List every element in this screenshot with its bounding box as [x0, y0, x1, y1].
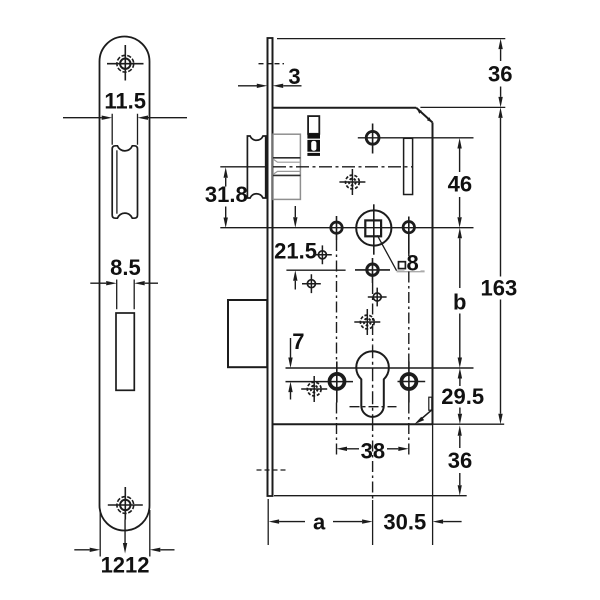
dimension 21.5 arrows (outside) [294, 206, 296, 290]
follower horizontal centreline through holes [220, 227, 473, 229]
follower square (8mm) [365, 220, 381, 236]
slider white slot [311, 141, 316, 151]
hole below follower [367, 264, 378, 275]
countersunk hole E (dashed circles) [346, 175, 360, 189]
slider black body [307, 140, 320, 152]
follower circle [356, 210, 391, 245]
hole left of cylinder [330, 374, 345, 389]
faceplate bottom extension [274, 495, 467, 497]
extension of case top edge to 163 [420, 106, 505, 108]
top screw centreline dashes [259, 63, 285, 65]
dimension b line and arrows [459, 238, 461, 357]
dimension 11.5 arrows [63, 117, 187, 119]
svg-text:46: 46 [448, 172, 472, 197]
latch tail spring line lower [273, 171, 300, 174]
top screw hole crosshair [107, 45, 144, 81]
svg-text:163: 163 [481, 275, 518, 300]
cylinder side holes line right [398, 381, 426, 383]
latch tail lower line [273, 174, 300, 176]
top extension line from faceplate top [277, 38, 505, 40]
svg-text:38: 38 [361, 439, 385, 464]
latch cutout [112, 146, 137, 218]
hole right of follower vertical crosshair [408, 217, 410, 254]
top hole vertical crosshair [372, 124, 374, 154]
svg-text:a: a [313, 510, 326, 535]
dimension 8.5 arrows [90, 282, 158, 284]
lock case top edge [274, 107, 417, 109]
svg-text:1212: 1212 [101, 552, 150, 577]
dimension 163 line and arrows [500, 118, 502, 414]
dimension 36 top line and arrows [500, 49, 502, 97]
hole left of follower vertical crosshair [336, 216, 338, 240]
vertical dash-dot cylinder axis upper [372, 283, 374, 345]
diagonal indicator with arrow at bottom right [418, 410, 432, 422]
latch tail spring line upper [273, 159, 300, 162]
lock case right edge [432, 123, 434, 425]
deadbolt (side view) [228, 300, 267, 367]
top hole horizontal line extension to 46 dim [358, 137, 474, 139]
vertical dash-dot centreline right holes lower [408, 403, 410, 456]
vertical dash-dot centreline right holes upper [408, 254, 410, 362]
svg-text:11.5: 11.5 [104, 89, 146, 114]
lock case top right chamfer [416, 108, 432, 123]
follower vertical crosshair [373, 204, 375, 254]
faceplate side view top cap [267, 37, 274, 39]
chamfer end arrow marks [417, 109, 422, 114]
vertical slot [404, 138, 413, 194]
vertical dash-dot centreline left holes [336, 240, 338, 455]
hole right of cylinder [401, 374, 416, 389]
small cross hole A [318, 251, 326, 259]
dimension 46 line and arrows [459, 149, 461, 218]
svg-text:29.5: 29.5 [441, 384, 484, 409]
dimension 12/12 arrows [74, 549, 174, 551]
svg-text:7: 7 [292, 329, 304, 354]
faceplate outline (front view) [100, 37, 150, 531]
dimension 21.5 extension line [286, 269, 345, 271]
svg-text:21.5: 21.5 [274, 239, 317, 264]
bottom screw hole crosshair [108, 487, 143, 520]
slider middle black band [307, 134, 320, 139]
deadbolt cutout [116, 313, 134, 390]
small cross hole B [307, 280, 315, 288]
svg-text:36: 36 [448, 448, 472, 473]
countersunk hole F (dashed circles) [307, 382, 321, 396]
countersunk hole D (dashed circles) [360, 315, 374, 329]
square symbol of 8 label [399, 262, 406, 269]
white backing for 8 label [405, 255, 421, 272]
hole right of cylinder vertical crosshair [408, 362, 410, 403]
cylinder axis extension to bottom dims [372, 500, 374, 545]
slider bottom black band [307, 153, 320, 156]
svg-text:30.5: 30.5 [383, 510, 426, 535]
hole below follower crosshair [355, 258, 390, 283]
vertical dash-dot cylinder axis lower [372, 420, 374, 500]
cylinder stem cross dash [350, 406, 397, 408]
cylinder horizontal centreline [286, 367, 474, 369]
faceplate side view front line [267, 38, 269, 496]
euro profile cylinder hole [356, 351, 389, 417]
hole left of cylinder vertical crosshair [336, 362, 338, 403]
case bottom extension to 163 [433, 423, 505, 425]
centre line with down arrow to 12/12 dimension [124, 520, 126, 544]
vertical dash-dot cylinder axis through keyhole [372, 345, 374, 420]
dimension 29.5 line and arrows [459, 379, 461, 414]
svg-text:36: 36 [488, 62, 512, 87]
cylinder side holes line left [286, 381, 354, 383]
bottom screw hole [120, 500, 130, 510]
dimension 38 arrows [347, 448, 398, 450]
leader line from follower square [377, 235, 396, 270]
dimension 30.5 outside arrow [443, 521, 462, 523]
bottom screw centreline dashes [257, 469, 286, 471]
leader underline (grey) [397, 270, 425, 272]
svg-text:8.5: 8.5 [110, 255, 141, 280]
faceplate side view bottom cap [267, 495, 274, 497]
svg-text:b: b [453, 289, 466, 314]
dimension 8.5 extension lines [117, 280, 135, 310]
svg-text:3: 3 [288, 64, 300, 89]
main horizontal centreline solid part (31.8 extension) [220, 166, 265, 168]
dimension 7 arrows (outside) [290, 338, 292, 400]
dimension 36 bottom line and arrows [459, 436, 461, 486]
right edge extension below case [432, 424, 434, 545]
latch bolt (side view) [247, 136, 265, 198]
top screw hole [120, 59, 130, 69]
latch cutout inner line [116, 150, 118, 213]
small cross hole C [373, 293, 381, 301]
lock case bottom edge [273, 423, 433, 425]
main horizontal centreline dash-dot [273, 166, 413, 168]
slider upper box [308, 116, 319, 134]
hole right of follower [403, 222, 414, 233]
top screw hole countersink (dashed circle) [117, 55, 134, 72]
dimension 3 arrows [238, 85, 302, 87]
dimension 31.8 line and arrows [225, 178, 227, 218]
faceplate front extension below [267, 499, 269, 545]
faceplate side view back line [272, 38, 274, 496]
latch tail (grey) [273, 134, 300, 199]
dimension 12/12 extension lines [100, 510, 150, 557]
hole left of follower [331, 222, 342, 233]
dimension a arrows [279, 521, 362, 523]
dimension 11.5 extension lines [112, 114, 137, 145]
bottom screw hole countersink (dashed circle) [117, 497, 134, 514]
latch tail upper line [273, 157, 300, 159]
notch on right edge [429, 397, 432, 410]
top hole [366, 131, 379, 144]
